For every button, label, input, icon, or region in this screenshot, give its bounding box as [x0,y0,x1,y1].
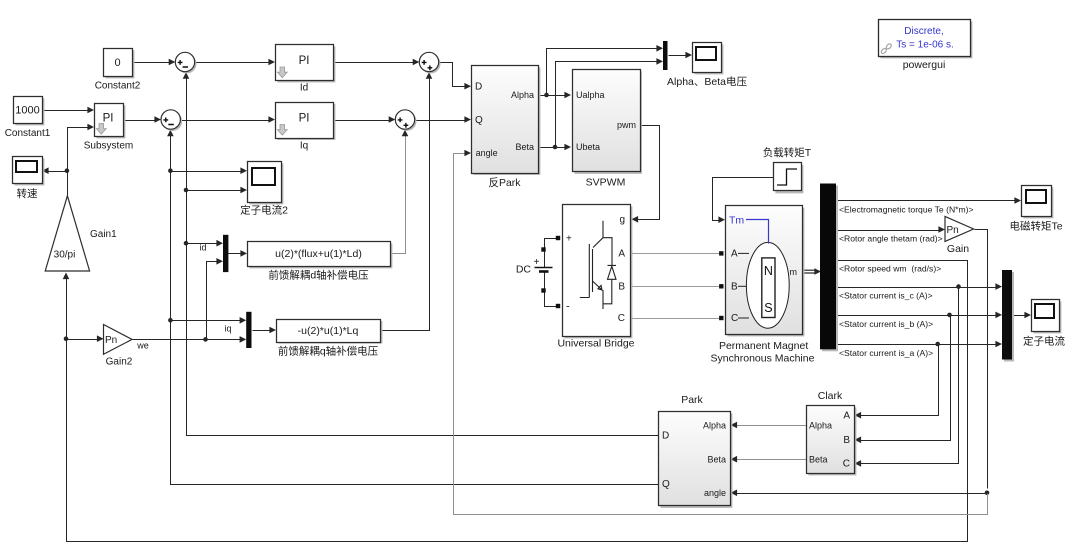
svg-text:S: S [764,301,772,315]
wire is_c riser to Clark C [855,288,959,467]
svg-text:反Park: 反Park [488,177,521,189]
svg-text:Universal Bridge: Universal Bridge [557,338,634,350]
wire is_b riser to Clark B [855,316,951,444]
svg-text:SVPWM: SVPWM [586,177,626,189]
svg-text:前馈解耦q轴补偿电压: 前馈解耦q轴补偿电压 [278,345,379,358]
svg-text:powergui: powergui [903,59,946,71]
wire Alpha to Ualpha [539,92,572,99]
svg-text:Ualpha: Ualpha [576,90,605,100]
svg-text:Subsystem: Subsystem [84,141,133,152]
svg-text:Gain: Gain [947,243,969,255]
node Alpha branch junction [544,93,549,98]
svg-text:定子电流: 定子电流 [1023,335,1065,348]
svg-text:C: C [618,313,625,324]
label Gain1 [90,229,117,240]
wire PI Id to sum3 [334,59,420,66]
wire DC+ to bridge [545,239,558,268]
label 反Park [488,177,521,189]
wire iq branch to mux2 in1 [171,317,247,324]
svg-text:Permanent Magnet: Permanent Magnet [719,340,808,352]
label Constant2 [95,81,141,92]
wire id feedback Park D output riser [183,72,659,435]
svg-text:pwm: pwm [617,120,636,130]
label Constant1 [5,128,51,139]
port square PMSM A [719,251,723,255]
svg-text:Beta: Beta [515,142,534,152]
wire is_a to mux4 [837,341,1003,348]
fcn Fcn2 q-axis compensation [277,320,383,344]
wire angle into Park [731,490,988,497]
svg-text:Tm: Tm [729,215,744,227]
label bus signal Stator current is [839,319,933,329]
label we [136,341,149,351]
sum circle 4 Vq [395,110,416,131]
port square bridge C [628,316,632,320]
wire we riser to mux1 in2 [207,258,224,340]
svg-text:PI: PI [103,113,114,125]
label Gain2 [106,357,133,368]
svg-text:id: id [199,243,206,253]
node iq to mux2 junction [168,318,173,323]
svg-text:D: D [475,82,482,93]
wire m bus PMSM to Bus Selector [802,268,836,275]
wire 负载转矩T to PMSM Tm [713,178,774,224]
scope Alpha Beta 电压 [693,43,724,75]
wire wm bus-selector output 3 to riser [67,261,968,542]
svg-text:A: A [731,249,738,260]
label 负载转矩T [763,146,812,159]
node wm/Gain2 branch junction [64,336,69,341]
wire Beta riser to mux3 in2 [556,58,664,147]
wire sum4 to 反Park Q port [416,116,472,123]
svg-text:1000: 1000 [15,105,39,117]
node iq to scope junction [168,168,173,173]
PI controller Id [276,45,336,83]
svg-text:Q: Q [662,479,670,490]
svg-text:PI: PI [299,113,310,125]
label Park [681,394,703,406]
svg-text:g: g [619,215,625,226]
svg-text:<Stator current is_b (A)>: <Stator current is_b (A)> [839,319,933,329]
wire wm branch to Gain2 [67,335,104,342]
wire arrow into Gain1 input [63,273,70,280]
svg-text:-: - [566,301,570,313]
svg-text:N: N [764,264,773,278]
machine Permanent Magnet Synchronous Machine [726,206,805,337]
subsystem SVPWM [573,70,642,174]
svg-text:Pn: Pn [105,335,117,346]
wire is_c to mux4 [837,283,1003,290]
svg-text:C: C [731,313,738,324]
node id to mux1 junction [184,241,189,246]
svg-text:Constant2: Constant2 [95,81,141,92]
wire Constant1 to Subsystem [43,107,95,114]
label Clark [818,390,843,402]
svg-text:<Electromagnetic torque Te (N*: <Electromagnetic torque Te (N*m)> [839,205,974,215]
svg-text:B: B [618,282,625,293]
label Iq [300,141,308,152]
label bus signal Stator current is [839,348,933,358]
wire Fcn1 output riser to sum4 [391,130,409,254]
port square DC bottom [541,288,545,292]
wire id branch to scope in2 [187,187,248,194]
wire Subsystem to sum2 [124,116,162,123]
svg-text:-u(2)*u(1)*Lq: -u(2)*u(1)*Lq [298,325,359,337]
wire theta to Gain [837,226,946,233]
label iq [224,324,231,334]
scope 定子电流2 [248,162,284,205]
svg-text:Gain1: Gain1 [90,229,117,240]
svg-text:Q: Q [475,115,483,126]
svg-text:<Rotor speed wm (rad/s)>: <Rotor speed wm (rad/s)> [839,264,941,274]
label DC [516,264,532,276]
svg-text:Gain2: Gain2 [106,357,133,368]
subsystem Subsystem speed PI [95,104,126,139]
label 电磁转矩Te [1009,220,1062,233]
svg-text:<Rotor angle thetam (rad)>: <Rotor angle thetam (rad)> [839,234,943,244]
node angle Park branch junction [985,491,990,496]
svg-text:电磁转矩Te: 电磁转矩Te [1009,220,1062,233]
port square PMSM B [719,284,723,288]
wire Beta to Ubeta [539,144,572,151]
scope 定子电流 [1032,300,1062,334]
svg-text:angle: angle [704,488,726,498]
wire phase C Universal Bridge to PMSM [633,318,723,320]
svg-text:Constant1: Constant1 [5,128,51,139]
battery DC voltage source [534,257,553,272]
label 转速 [17,187,38,200]
svg-text:Clark: Clark [818,390,843,402]
wire mux3 to scope Alpha Beta [669,52,693,59]
svg-text:iq: iq [224,324,231,334]
subsystem Clark transform [807,406,857,476]
label Synchronous Machine [711,353,815,365]
wire Constant2 to sum1 [133,59,176,66]
label 定子电流2 [240,204,288,217]
wire id branch to mux1 in1 [187,240,224,247]
wire is_a riser to Clark A [855,345,939,419]
mux M1 id/we [223,235,228,272]
svg-text:30/pi: 30/pi [54,250,76,261]
wire phase B Universal Bridge to PMSM [633,286,723,288]
svg-text:Ts = 1e-06 s.: Ts = 1e-06 s. [896,40,954,51]
svg-text:DC: DC [516,264,532,276]
wire PI Iq to sum4 [334,116,396,123]
svg-text:Beta: Beta [809,454,828,464]
label powergui [903,59,946,71]
label Gain [947,243,969,255]
wire we Gain2 output to mux2 [133,336,247,343]
svg-text:Alpha: Alpha [809,420,832,430]
svg-text:u(2)*(flux+u(1)*Ld): u(2)*(flux+u(1)*Ld) [275,248,362,260]
wire Clark Alpha to Park Alpha [731,422,807,429]
svg-text:Alpha、Beta电压: Alpha、Beta电压 [667,75,747,88]
wire angle long feed to 反Park [454,150,988,515]
gain Gain2 Pn [104,325,133,355]
step source 负载转矩T [774,163,804,194]
wire DC- to bridge [545,273,558,307]
svg-text:前馈解耦d轴补偿电压: 前馈解耦d轴补偿电压 [268,269,369,282]
wire mux2 to Fcn2 [253,327,277,334]
label 前馈解耦d轴补偿电压 [268,269,369,282]
svg-text:定子电流2: 定子电流2 [240,204,288,217]
node Beta branch junction [553,145,558,150]
wire sum3 to 反Park D port [440,63,472,90]
wire Te to scope 电磁转矩Te [837,197,1022,204]
bus selector [820,184,838,352]
svg-text:<Stator current is_a (A)>: <Stator current is_a (A)> [839,348,933,358]
svg-text:Discrete,: Discrete, [904,26,943,37]
constant Constant2 value 0 [104,49,135,79]
wire iq feedback Park Q output riser [167,130,658,485]
svg-text:Park: Park [681,394,703,406]
svg-text:D: D [662,431,669,442]
mux M4 stator currents [1002,270,1014,362]
label Permanent Magnet [719,340,808,352]
svg-text:Beta: Beta [707,454,726,464]
port square bridge B [628,284,632,288]
wire branch into scope 转速 [42,167,68,174]
node id to scope junction [184,188,189,193]
svg-text:Synchronous Machine: Synchronous Machine [711,353,815,365]
wire Alpha riser to mux3 in1 [547,45,664,96]
port square bridge plus [556,236,560,240]
wire mux1 to Fcn1 [229,250,248,257]
node Gain1 output branch junction [65,168,70,173]
sum circle 1 id error [175,52,196,73]
svg-text:m: m [790,267,798,277]
svg-text:A: A [618,249,625,260]
label Id [300,83,308,94]
port square bridge minus [556,304,560,308]
svg-text:A: A [843,411,850,422]
bridge Universal Bridge [563,205,633,339]
sum circle 3 Vd [419,52,440,73]
label id [199,243,206,253]
svg-text:Iq: Iq [300,141,308,152]
label SVPWM [586,177,626,189]
label bus signal Rotor speed wm ( [839,264,941,274]
label bus signal Rotor angle theta [839,234,943,244]
mux M2 iq/we [246,312,251,348]
svg-text:<Stator current is_c (A)>: <Stator current is_c (A)> [839,291,933,301]
wire sum1 to PI Id [196,59,276,66]
svg-text:PI: PI [299,55,310,67]
node is_c branch junction [956,284,961,289]
svg-text:B: B [731,282,738,293]
wire Gain output riser [975,230,988,489]
PI controller Iq [276,103,336,140]
fcn Fcn1 d-axis compensation [248,242,393,269]
scope 转速 [13,157,45,186]
subsystem Park transform [659,412,733,508]
powergui block [879,20,973,59]
label Universal Bridge [557,338,634,350]
svg-text:Alpha: Alpha [511,90,534,100]
label 定子电流 [1023,335,1065,348]
wire pwm to Universal Bridge g [632,126,660,223]
svg-text:we: we [136,341,149,351]
svg-text:Id: Id [300,83,308,94]
svg-text:Ubeta: Ubeta [576,142,600,152]
wire sum2 to PI Iq [181,116,276,123]
constant Constant1 value 1000 [14,97,45,126]
node is_a branch junction [935,342,940,347]
node is_b branch junction [947,313,952,318]
port square bridge A [628,251,632,255]
svg-text:C: C [843,459,850,470]
scope 电磁转矩Te [1022,186,1054,219]
wire is_b to mux4 [837,312,1003,319]
gain Gain1 30/pi [45,196,89,271]
svg-text:转速: 转速 [17,187,38,200]
svg-text:Pn: Pn [947,225,959,236]
wire phase A Universal Bridge to PMSM [633,253,723,255]
port square DC top [541,247,545,251]
svg-text:+: + [534,257,540,268]
gain Gain Pn [945,216,974,241]
node we branch junction [203,337,208,342]
sum circle 2 iq error [161,110,182,131]
label bus signal Stator current is [839,291,933,301]
svg-text:angle: angle [476,148,498,158]
svg-text:0: 0 [114,57,120,69]
wire iq branch to scope in1 [171,167,248,174]
label bus signal Electromagnetic t [839,205,974,215]
svg-text:Alpha: Alpha [703,420,726,430]
wire Clark Beta to Park Beta [731,456,807,463]
label Alpha、Beta电压 [667,75,747,88]
port square PMSM C [719,316,723,320]
label 前馈解耦q轴补偿电压 [278,345,379,358]
label Subsystem [84,141,133,152]
wire Gain1 output riser [68,124,95,197]
svg-text:B: B [843,435,850,446]
subsystem 反Park inverse Park transform [472,66,541,175]
svg-text:+: + [566,234,572,245]
wire Fcn2 output riser to sum3 [381,72,433,330]
mux M3 alpha/beta voltages [663,41,668,70]
wire mux4 to scope 定子电流 [1013,312,1032,319]
svg-text:负载转矩T: 负载转矩T [763,146,812,159]
